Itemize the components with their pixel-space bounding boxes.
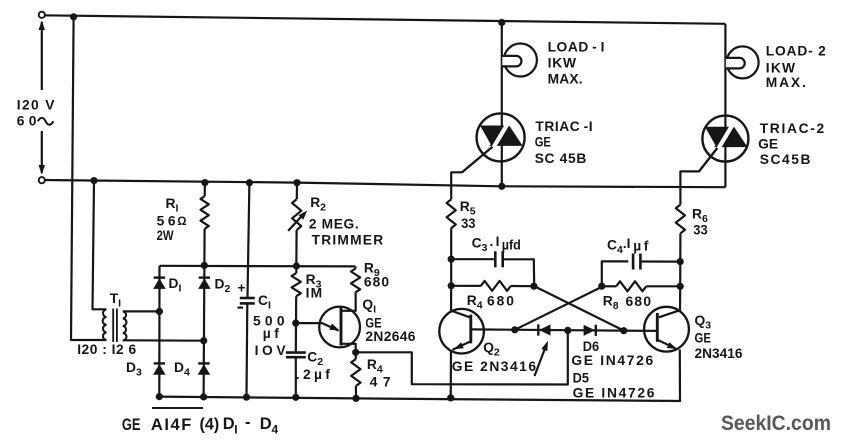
svg-text:4: 4 (272, 423, 279, 437)
junction ground bus / C2 (292, 394, 299, 401)
wire R3 to C2 (Q1 emitter node) (295, 296, 298, 352)
capacitor C3 (494, 251, 497, 267)
capacitor C1 (electrolytic) (240, 297, 255, 300)
junction ground bus / R4 (352, 395, 359, 402)
resistor R8 (616, 281, 646, 291)
resistor R6 (676, 205, 685, 234)
svg-text:D: D (260, 415, 272, 433)
wire C4 branch left with corner (602, 261, 629, 286)
AC source terminal top (39, 12, 45, 18)
wire R4 top stub (355, 352, 357, 359)
junction ground bus / C1 (243, 394, 250, 401)
svg-text:MAX.: MAX. (548, 72, 583, 87)
junction R8 / R6 / Q3 collector (677, 283, 684, 290)
wire D1-D3 column (158, 266, 160, 397)
resistor R4 47 (351, 359, 360, 386)
wire TRIAC-1 gate to R5 (451, 147, 492, 200)
svg-text:2W: 2W (157, 228, 174, 243)
lamp LOAD-1 (504, 44, 537, 77)
junction secondary bottom / D2-D4 (200, 337, 207, 344)
svg-text:IM: IM (306, 286, 324, 301)
wire cross-coupling diagonal to Q2 base (515, 286, 603, 329)
transformer T1 primary winding (103, 310, 107, 341)
svg-text:µfd: µfd (502, 237, 521, 253)
svg-text:SC45B: SC45B (760, 152, 812, 167)
svg-text:GE: GE (695, 331, 711, 346)
transistor Q2 (2N3416, base right) (439, 309, 484, 354)
diode D4 (198, 362, 209, 364)
AC source arrowhead down (39, 165, 46, 175)
svg-text:IKW: IKW (548, 56, 577, 71)
AC source arrowhead up (39, 21, 46, 31)
wire top AC rail (42, 15, 725, 23)
junction + bus / R2-R3 (293, 262, 300, 269)
svg-text:680: 680 (626, 294, 653, 309)
svg-text:680: 680 (487, 294, 516, 309)
wire R8 left stub (603, 285, 616, 287)
junction Q1 B1 / R4 / trigger (352, 349, 359, 356)
junction D5-D6 / trigger (564, 327, 571, 334)
svg-text:GE 2N3416: GE 2N3416 (452, 359, 538, 374)
transistor Q3 (2N3416, base left) (644, 307, 689, 352)
watermark SeekIC.com (721, 412, 831, 435)
wire C1 column upper (248, 183, 250, 298)
wire R8 right stub (646, 285, 680, 287)
capacitor C2 (286, 351, 306, 354)
label R6 value 33 (693, 222, 707, 237)
wire AC rail to transformer primary top (93, 181, 107, 310)
junction AC rail / TRIAC-1 (498, 183, 505, 190)
svg-text:2N2646: 2N2646 (365, 329, 415, 344)
diode D1 (154, 276, 165, 278)
svg-text:SC 45B: SC 45B (535, 151, 587, 166)
label diode type GE A14F (4) D1-D4 (122, 417, 141, 435)
junction ground bus / D4 (200, 393, 207, 400)
wire C2 to ground bus (295, 357, 297, 397)
junction Q2 base / diagonal (511, 326, 518, 333)
wire Q3 emitter to ground bus (679, 350, 681, 402)
wire cross-coupling diagonal to Q3 base (535, 286, 624, 330)
svg-text:TRIMMER: TRIMMER (312, 233, 385, 248)
svg-text:I: I (234, 423, 237, 437)
svg-text:MAX.: MAX. (766, 75, 808, 90)
transformer T1 secondary winding (123, 311, 127, 340)
label D5 (573, 370, 590, 386)
transistor Q1 (UJT 2N2646) (319, 307, 360, 348)
wire C3 branch left (451, 258, 494, 260)
svg-text:47: 47 (370, 375, 396, 390)
svg-text:TRIAC -I: TRIAC -I (535, 119, 593, 134)
arrow pointing to D5 (535, 345, 547, 377)
wire C1 column lower (245, 304, 248, 398)
resistor R3 (292, 273, 301, 296)
svg-text:GE IN4726: GE IN4726 (571, 353, 654, 368)
svg-text:GE: GE (758, 137, 778, 152)
svg-text:I20 : I2 6: I20 : I2 6 (77, 342, 136, 357)
svg-text:µf: µf (263, 326, 282, 341)
resistor R1 (201, 196, 209, 229)
resistor R7 (drawn as R4 680) (481, 281, 511, 291)
wire C3 branch right with corner (504, 259, 535, 286)
lamp LOAD-2 (727, 46, 759, 78)
junction R3 / C2 / Q1 emitter (292, 320, 299, 327)
resistor R2 (trimmer) (292, 199, 301, 230)
diode D2 (199, 276, 210, 278)
junction C4-R8 / diagonal (598, 283, 605, 290)
junction ground bus / D3 (156, 393, 163, 400)
wire R7 right stub (511, 285, 535, 287)
junction AC rail / primary branch (90, 177, 97, 184)
junction R5 / C3 (448, 256, 455, 263)
AC source arrow line lower (41, 131, 43, 173)
svg-text:D: D (223, 415, 235, 433)
junction ground bus / Q2 emitter (447, 394, 454, 401)
svg-text:2 MEG.: 2 MEG. (309, 217, 359, 232)
AC source terminal bottom (39, 177, 45, 183)
svg-text:(4): (4) (200, 415, 220, 433)
svg-text:.2µf: .2µf (296, 367, 333, 382)
svg-text:TRIAC-2: TRIAC-2 (760, 121, 826, 136)
junction AC rail / C1 column (246, 179, 253, 186)
label Q1 type GE 2N2646 (365, 315, 381, 330)
svg-text:GE: GE (535, 134, 551, 149)
triac TRIAC-2 (702, 116, 748, 162)
wire R6 bottom to C4 / R8 junctions (679, 233, 681, 286)
junction AC rail / R1 (201, 179, 208, 186)
svg-text:D6: D6 (583, 339, 599, 355)
svg-text:.I: .I (490, 234, 502, 249)
wire R5 bottom to C3 / R7 junctions (450, 228, 452, 286)
junction top rail / primary branch (70, 13, 77, 20)
wire R1 bottom / D2 / D4 column (204, 229, 205, 397)
resistor R5 (447, 199, 456, 228)
trimmer arrow R2 (288, 213, 304, 231)
wire + bus (rectifier output) (160, 265, 356, 268)
wire R4 bottom to ground bus (355, 386, 357, 398)
wire C4 branch right (642, 260, 681, 262)
svg-text:+: + (238, 280, 246, 295)
capacitor C4 (632, 254, 635, 270)
wire lower AC rail (42, 180, 725, 187)
svg-text:IOV: IOV (255, 343, 290, 358)
svg-text:D5: D5 (573, 370, 590, 386)
wire Q2 collector (451, 286, 470, 317)
junction R7 / Q2 collector (448, 282, 455, 289)
diode D6 (points right) (595, 325, 597, 336)
wire Q1 base-1 lead to R4 node (341, 344, 356, 353)
svg-text:I20 V: I20 V (17, 98, 56, 113)
svg-text:GE: GE (122, 417, 141, 435)
junction secondary top / D1-D3 (156, 308, 163, 315)
junction + bus / R1-D2 (201, 262, 208, 269)
junction top rail / LOAD-1 branch (498, 19, 505, 26)
junction C4 / R6 (677, 258, 684, 265)
resistor R9 (351, 269, 360, 293)
svg-text:2N3416: 2N3416 (695, 346, 743, 361)
wire R2 top from AC rail (296, 183, 298, 199)
svg-text:GE IN4726: GE IN4726 (573, 386, 656, 401)
wire Q1 emitter from R3-C2 node (296, 323, 339, 331)
svg-text:Ω: Ω (177, 216, 186, 228)
svg-text:.I: .I (623, 236, 631, 251)
junction C3-R7 / diagonal (530, 283, 537, 290)
label D6 (583, 339, 599, 355)
svg-text:µf: µf (633, 239, 651, 254)
wire R9 top from + bus (354, 266, 356, 268)
triac TRIAC-1 (477, 113, 525, 161)
transformer T1 core (112, 309, 114, 343)
wire TRIAC-2 gate to R6 (680, 148, 717, 205)
svg-text:AI4F: AI4F (151, 416, 193, 434)
wire R2 to R3 (295, 230, 298, 273)
svg-text:60: 60 (17, 114, 41, 129)
wire LOAD-2 / TRIAC-2 branch vertical (724, 24, 726, 187)
label R5 value 33 (461, 216, 475, 231)
svg-text:LOAD - I: LOAD - I (548, 40, 605, 55)
svg-text:-: - (245, 414, 251, 432)
svg-text:56: 56 (157, 214, 180, 229)
wire ground bus (159, 397, 681, 401)
wire Q3 collector (659, 286, 680, 317)
wire R1 top from AC rail (204, 183, 206, 197)
wire left vertical to transformer primary bottom (71, 17, 107, 340)
svg-text:SeekIC.com: SeekIC.com (721, 412, 831, 435)
svg-text:IKW: IKW (766, 61, 796, 76)
AC source arrow line upper (41, 22, 43, 90)
wire LOAD-1 / TRIAC-1 branch vertical (501, 23, 503, 187)
wire transformer secondary top to D1-D3 node (123, 310, 160, 312)
diode D3 (154, 362, 165, 364)
wire Q2 emitter to ground bus (450, 351, 452, 398)
svg-text:33: 33 (461, 216, 475, 231)
junction AC rail / R2 (293, 179, 300, 186)
wire UJT trigger to D5-D6 junction (356, 330, 568, 384)
wire transformer secondary bottom to D2-D4 node (123, 339, 204, 342)
wire R9 bottom to Q1 base-2 lead (341, 292, 356, 311)
label Q3 type GE 2N3416 (695, 331, 711, 346)
wire R7 left stub (451, 285, 481, 287)
svg-text:33: 33 (693, 222, 707, 237)
svg-text:680: 680 (364, 275, 390, 290)
wire Q2 base to Q3 base through D5 D6 (471, 329, 658, 331)
diode D5 (points left) (537, 324, 539, 335)
junction Q3 base / diagonal (620, 327, 627, 334)
svg-text:LOAD- 2: LOAD- 2 (766, 44, 827, 59)
